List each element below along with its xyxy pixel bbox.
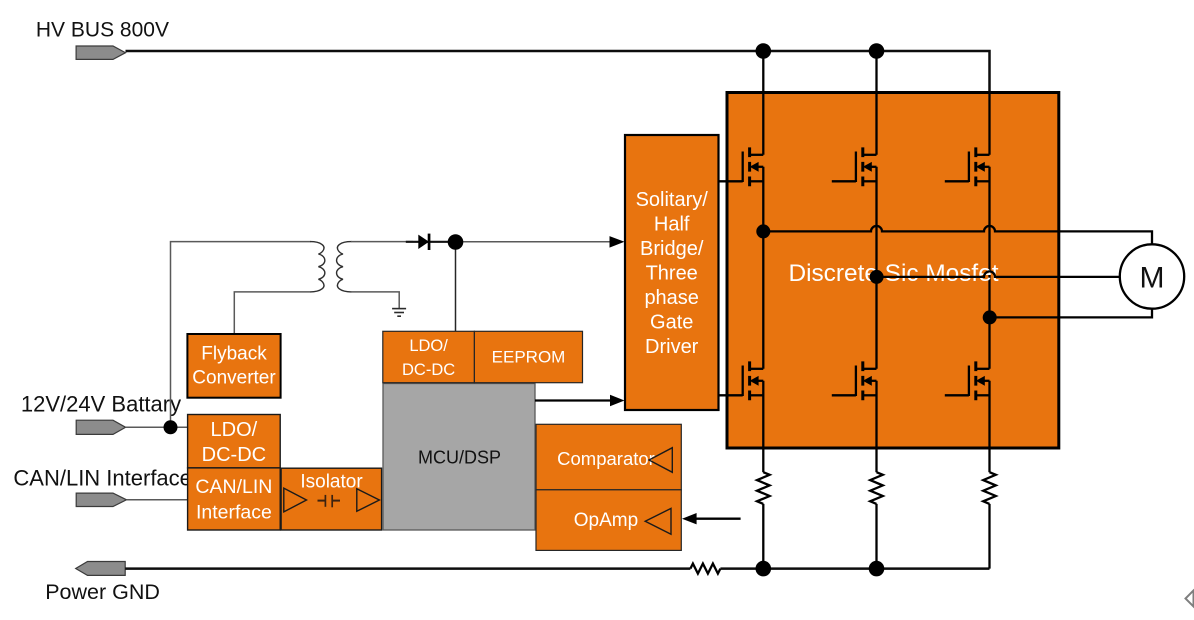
svg-text:LDO/: LDO/ (409, 337, 448, 355)
block: Comparator (536, 424, 681, 490)
svg-text:Isolator: Isolator (300, 471, 363, 492)
svg-text:phase: phase (644, 287, 699, 309)
wire: phase A output to motor (763, 226, 1152, 244)
wire: CAN/LIN connector to interface block (127, 499, 189, 501)
motor M (1120, 244, 1184, 308)
wire: gate driver to Q1 gate (719, 180, 743, 182)
svg-text:Interface: Interface (196, 502, 272, 524)
resistor R1 (phase A shunt) (757, 472, 770, 504)
node: phase A output junction (756, 224, 770, 238)
block: LDO/DC-DC (battery side) (188, 415, 281, 468)
svg-text:CAN/LIN: CAN/LIN (195, 476, 272, 498)
wire: battery junction up to flyback transformer primary (171, 242, 311, 428)
wire: HV bus 800V (126, 51, 990, 93)
wire: Q3 gate stub (945, 180, 969, 182)
node: battery junction (164, 420, 178, 434)
wire: Q2 gate stub (832, 180, 856, 182)
wire: secondary top to diode D1 (351, 241, 413, 243)
svg-text:Converter: Converter (192, 368, 276, 389)
wire: secondary bottom to ground (351, 292, 399, 308)
isolator input buffer symbol (284, 488, 307, 512)
block: MCU/DSP (383, 384, 535, 531)
wire: Q6 gate stub (945, 394, 969, 396)
svg-text:Discrete Sic Mosfet: Discrete Sic Mosfet (788, 260, 998, 287)
resistor R3 (phase C shunt) (983, 472, 996, 504)
wire: battery to LDO/DC-DC (126, 426, 188, 428)
svg-text:MCU/DSP: MCU/DSP (418, 448, 501, 468)
power GND connector terminal (76, 562, 126, 576)
svg-text:Half: Half (654, 213, 690, 235)
svg-text:Power GND: Power GND (45, 580, 160, 604)
block: Discrete Sic Mosfet module (727, 93, 1059, 449)
wire: power GND bus (125, 567, 989, 570)
block: Isolator (281, 468, 382, 530)
transistor Q5 (phase B low side) (856, 361, 877, 400)
CAN/LIN connector terminal (76, 493, 126, 506)
transistor Q6 (phase C low side) (969, 361, 990, 400)
wire: phase C leg (988, 93, 990, 569)
wire: diode junction down to LDO/DC-DC (455, 242, 457, 331)
wire: phase B output to motor (877, 271, 1120, 277)
op-amp symbol (645, 508, 671, 534)
svg-text:12V/24V Battary: 12V/24V Battary (21, 391, 181, 416)
svg-text:Gate: Gate (650, 311, 693, 333)
transformer T1 primary winding (310, 242, 325, 292)
wire: current sense to OpAmp (arrow) (691, 518, 741, 520)
svg-text:Comparator: Comparator (557, 448, 655, 469)
transistor Q4 (phase A low side) (743, 361, 764, 400)
transformer T1 secondary winding (337, 242, 352, 292)
diode D1 (406, 234, 448, 250)
wire: gate driver to Q4 gate (719, 394, 743, 396)
svg-text:LDO/: LDO/ (211, 419, 258, 441)
isolator output buffer symbol (357, 489, 380, 512)
block: EEPROM (474, 331, 582, 382)
node: gnd / phase A junction (756, 561, 772, 577)
resistor R2 (phase B shunt) (870, 472, 883, 504)
svg-text:OpAmp: OpAmp (574, 510, 638, 531)
wire: diode junction to gate driver input (456, 241, 611, 243)
transistor Q2 (phase B high side) (856, 147, 877, 186)
node: HV bus / phase B junction (869, 43, 885, 59)
ground (392, 309, 406, 317)
svg-text:Driver: Driver (645, 336, 699, 358)
isolation capacitor symbol (318, 495, 341, 507)
block: OpAmp (536, 490, 681, 551)
svg-text:DC-DC: DC-DC (402, 361, 455, 379)
wire: MCU/DSP to gate driver (arrow) (535, 399, 612, 401)
transistor Q3 (phase C high side) (969, 147, 990, 186)
decorative corner glyph (1186, 591, 1194, 607)
node: phase B output junction (870, 270, 884, 284)
wire: phase C output to motor (990, 309, 1152, 318)
svg-text:DC-DC: DC-DC (202, 444, 266, 466)
svg-text:Three: Three (646, 262, 698, 284)
block: Flyback Converter (187, 334, 280, 398)
svg-text:CAN/LIN Interface: CAN/LIN Interface (13, 466, 192, 491)
svg-text:HV BUS 800V: HV BUS 800V (36, 19, 169, 42)
block: LDO/DC-DC (HV side) (383, 331, 475, 382)
node: phase C output junction (983, 310, 997, 324)
node: gnd / phase B junction (869, 561, 885, 577)
svg-text:Bridge/: Bridge/ (640, 238, 704, 260)
block: Solitary/Half Bridge/Three phase Gate Driver (625, 135, 719, 410)
svg-text:Solitary/: Solitary/ (636, 189, 709, 211)
HV bus connector terminal (76, 46, 125, 59)
wire: phase B leg (875, 51, 877, 569)
svg-text:EEPROM: EEPROM (492, 347, 566, 366)
wire: primary bottom to Flyback Converter (234, 292, 310, 334)
wire: Q5 gate stub (832, 394, 856, 396)
resistor R4 (gnd return) (690, 564, 720, 574)
comparator symbol (649, 448, 672, 473)
node: diode output junction (448, 234, 464, 250)
svg-text:Flyback: Flyback (201, 343, 267, 364)
wire: phase A leg (762, 51, 764, 569)
battery connector terminal (76, 420, 125, 434)
transistor Q1 (phase A high side) (743, 147, 764, 186)
svg-text:M: M (1140, 262, 1165, 295)
block: CAN/LIN Interface (188, 468, 281, 530)
node: HV bus / phase A junction (756, 43, 772, 59)
